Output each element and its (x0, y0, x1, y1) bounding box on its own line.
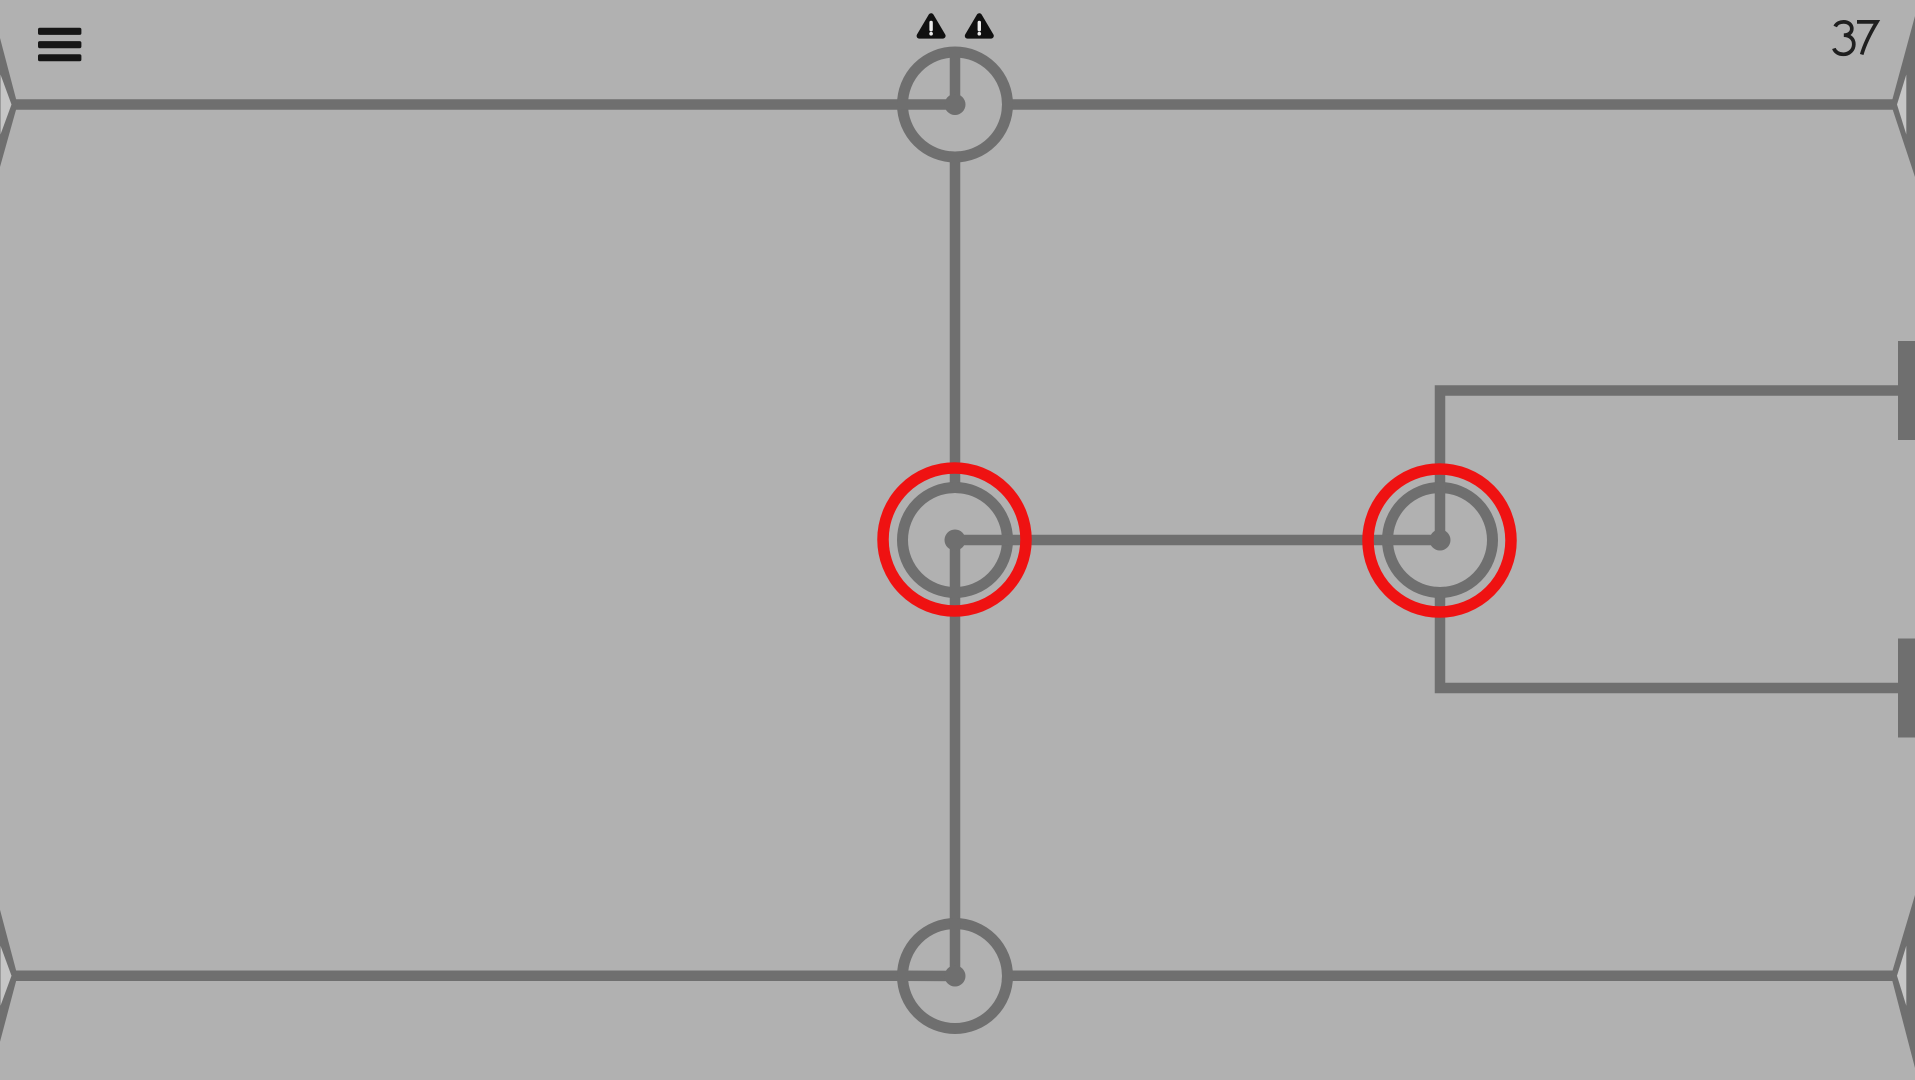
wire middle horizontal (955, 535, 1440, 546)
red ring highlight on middle node (883, 468, 1026, 611)
left edge connector top (0, 38, 18, 167)
right edge connector top (1891, 16, 1915, 177)
wire top horizontal (14, 99, 1896, 110)
wire right node down to terminal 2 (1440, 540, 1898, 688)
node R dot (1430, 530, 1451, 551)
node R ring (1388, 488, 1493, 593)
node M ring (903, 488, 1008, 593)
node T spoke left (901, 99, 955, 110)
node M spoke right (955, 535, 1009, 546)
node T dot (945, 94, 966, 115)
terminal bar 1 (1898, 341, 1915, 440)
node M interior mask (908, 493, 1002, 587)
node B ring (903, 924, 1008, 1029)
level number 37 (1834, 22, 1877, 55)
node B interior mask (908, 929, 1002, 1023)
terminal bar 2 (1898, 639, 1915, 738)
wire right node up to terminal 1 (1440, 391, 1898, 541)
node B spoke up (950, 922, 961, 976)
left edge connector bottom (0, 910, 18, 1042)
red ring highlight on right node (1368, 469, 1511, 612)
wire bottom horizontal (14, 971, 1896, 982)
node B dot (945, 966, 966, 987)
node R spoke left (1386, 535, 1440, 546)
right edge connector bottom (1891, 895, 1915, 1068)
warning icon 1 (919, 16, 943, 36)
node T spoke up (950, 50, 961, 105)
wire main vertical (950, 105, 961, 977)
node M dot (945, 530, 966, 551)
node R interior mask (1393, 493, 1487, 587)
warning icon 2 (968, 16, 992, 36)
node R spoke up (1435, 486, 1446, 540)
node M spoke down (950, 540, 961, 594)
node B spoke left (901, 971, 955, 982)
menu icon (hamburger) (38, 28, 81, 62)
node T ring (903, 52, 1008, 157)
node T interior mask (908, 58, 1002, 152)
